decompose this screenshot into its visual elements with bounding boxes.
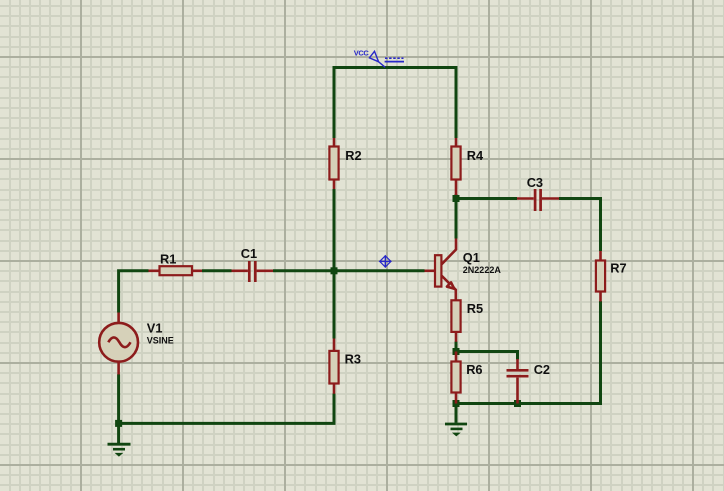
node: junction base rail / R2 / R3 bbox=[331, 267, 338, 274]
capacitor C2 bbox=[507, 359, 551, 404]
capacitor C3 bbox=[517, 175, 559, 211]
wire: between R1 and C1 bbox=[202, 269, 232, 272]
wire: emitter R5 bottom to junction bbox=[455, 342, 458, 352]
power terminal VCC bbox=[369, 51, 404, 67]
svg-text:C3: C3 bbox=[527, 175, 543, 190]
svg-text:R4: R4 bbox=[467, 148, 484, 163]
wire: V1 bottom to left ground junction bbox=[117, 374, 120, 423]
resistor R2 bbox=[329, 138, 361, 189]
wire: C3 right to R7 top corner bbox=[559, 199, 601, 252]
node: junction R6 bottom / ground bbox=[453, 400, 460, 407]
wire: C1 to Q1 base bbox=[273, 269, 425, 272]
resistor R4 bbox=[451, 138, 484, 195]
svg-text:V1: V1 bbox=[147, 321, 163, 336]
resistor R5 bbox=[451, 300, 483, 342]
wire: R2 bottom to base-rail junction and down to R3 bbox=[333, 189, 336, 339]
svg-text:VSINE: VSINE bbox=[147, 335, 174, 345]
svg-text:R2: R2 bbox=[345, 148, 361, 163]
transistor Q1 bbox=[425, 239, 502, 301]
source V1 (VSINE) bbox=[99, 313, 174, 375]
svg-text:R1: R1 bbox=[160, 251, 176, 266]
resistor R1 bbox=[149, 251, 203, 275]
wire: VCC top rail from R2 top to R4 top bbox=[334, 68, 456, 139]
svg-text:2N2222A: 2N2222A bbox=[463, 265, 502, 275]
capacitor C1 bbox=[232, 246, 274, 282]
svg-text:R6: R6 bbox=[466, 362, 482, 377]
resistor R3 bbox=[329, 339, 361, 394]
svg-text:C1: C1 bbox=[241, 246, 257, 261]
node: junction R5/R6/C2 link bbox=[453, 348, 460, 355]
svg-text:VCC: VCC bbox=[354, 49, 370, 58]
svg-text:C2: C2 bbox=[534, 362, 550, 377]
svg-text:Q1: Q1 bbox=[463, 250, 480, 265]
ground: left (below V1) bbox=[108, 424, 131, 456]
wire: bottom-right rail R6 bottom to R7 bottom bbox=[456, 301, 601, 404]
node: junction C2 bottom on rail bbox=[514, 400, 521, 407]
svg-text:R5: R5 bbox=[467, 301, 483, 316]
wire: bottom-left rail to R3 bottom bbox=[119, 394, 334, 424]
svg-text:R7: R7 bbox=[610, 261, 626, 276]
wire: junction to C2 top bbox=[456, 352, 518, 360]
resistor R6 bbox=[451, 352, 482, 404]
svg-text:R3: R3 bbox=[345, 352, 361, 367]
ground: right (below R6) bbox=[445, 404, 467, 436]
node: junction V1 / ground / bottom-left rail bbox=[115, 420, 122, 427]
resistor R7 bbox=[596, 251, 627, 302]
wire: R4 bottom junction to C3 bbox=[456, 194, 517, 199]
wire: collector vertical bbox=[455, 199, 458, 239]
node: origin marker (blue crosshair) bbox=[379, 255, 392, 268]
wire: base rail left segment (V1 top to R1) bbox=[119, 271, 149, 313]
node: junction at R4 bottom / collector / C3 bbox=[453, 195, 460, 202]
